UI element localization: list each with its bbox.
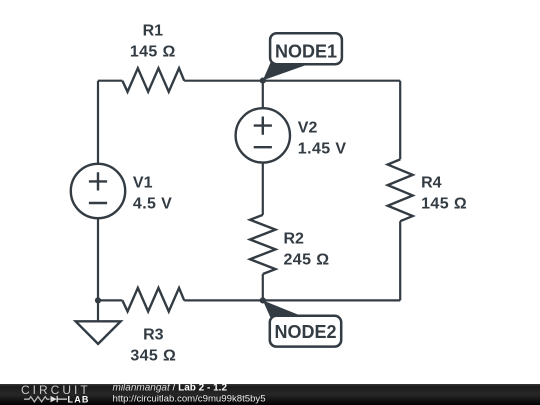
- svg-text:145 Ω: 145 Ω: [421, 196, 467, 213]
- wire right rail lower: [399, 221, 401, 300]
- wire top-left lead: [98, 80, 122, 82]
- wire left rail lower: [97, 218, 99, 300]
- wire middle upper: [262, 81, 264, 109]
- svg-text:1.45 V: 1.45 V: [298, 140, 347, 157]
- wire top to right corner: [184, 80, 400, 82]
- label R1 value: [130, 23, 176, 61]
- label R3 value: [130, 326, 176, 364]
- node NODE2 flag: [263, 300, 341, 346]
- wire left rail upper: [97, 81, 99, 164]
- wire middle V2 to R2: [262, 163, 264, 215]
- svg-text:145 Ω: 145 Ω: [130, 43, 176, 60]
- svg-text:http://circuitlab.com/c9mu99k8: http://circuitlab.com/c9mu99k8t5by5: [113, 394, 266, 405]
- svg-text:R2: R2: [284, 230, 305, 247]
- ground: [97, 300, 99, 321]
- svg-text:V2: V2: [298, 120, 318, 137]
- node B junction dot bottom middle: [260, 297, 266, 303]
- voltage source V2: [236, 108, 290, 162]
- svg-text:milanmangat / Lab 2 - 1.2: milanmangat / Lab 2 - 1.2: [113, 383, 228, 394]
- node C junction dot bottom left: [95, 297, 101, 303]
- resistor R4: [388, 159, 413, 221]
- svg-text:R3: R3: [143, 326, 164, 343]
- svg-text:NODE2: NODE2: [274, 322, 336, 342]
- resistor R1: [122, 68, 184, 92]
- label R2 value: [284, 230, 330, 268]
- svg-text:NODE1: NODE1: [275, 42, 337, 62]
- svg-text:R1: R1: [143, 23, 164, 40]
- node A junction dot top: [260, 78, 266, 84]
- resistor R3: [122, 288, 184, 312]
- node NODE1 flag: [263, 33, 342, 80]
- svg-text:4.5 V: 4.5 V: [133, 195, 172, 212]
- label R4 value: [421, 174, 467, 212]
- logo resistor squiggle: [24, 397, 49, 402]
- logo diode: [51, 396, 57, 402]
- wire bottom middle: [184, 299, 263, 301]
- resistor R2: [250, 215, 276, 274]
- wire right rail upper: [399, 81, 401, 160]
- svg-text:245 Ω: 245 Ω: [284, 252, 330, 269]
- wire middle R2 to bottom: [262, 274, 264, 300]
- svg-text:R4: R4: [421, 174, 442, 191]
- wire bottom right: [263, 299, 400, 301]
- voltage source V1: [71, 164, 125, 218]
- svg-text:V1: V1: [133, 175, 153, 192]
- svg-text:345 Ω: 345 Ω: [130, 347, 176, 364]
- svg-text:LAB: LAB: [68, 394, 90, 404]
- label V2 value: [298, 120, 347, 158]
- wire bottom left lead: [98, 299, 122, 301]
- footer bar: [0, 384, 540, 405]
- label V1 value: [133, 175, 172, 213]
